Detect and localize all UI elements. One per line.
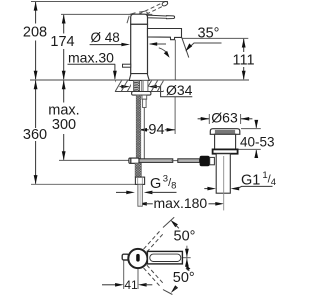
dim max30 leader: [68, 63, 116, 65]
svg-text:35°: 35°: [198, 26, 220, 42]
50deg lower leaders: [186, 265, 191, 271]
lever axis extension lower: [163, 290, 172, 295]
rod bar 2: [178, 159, 200, 163]
raised lever tip: [161, 1, 168, 7]
G3/8 thread tube: [138, 184, 142, 206]
svg-text:174: 174: [50, 34, 74, 50]
tailpipe: [216, 154, 230, 194]
flange: [210, 129, 240, 135]
lever axis extension upper: [163, 217, 174, 227]
pop-up rod body: [143, 99, 147, 107]
drain centerline: [223, 156, 225, 210]
ref line 174 top (cap top level): [61, 13, 152, 15]
knob: [200, 156, 210, 167]
lever rod: [148, 15, 175, 19]
leader with arrow: [187, 43, 221, 49]
lever pin: [136, 254, 140, 262]
lever mini-dim tick: [182, 257, 190, 259]
lever mini-dim arrows: [185, 249, 189, 257]
svg-text:Ø34: Ø34: [166, 82, 193, 98]
svg-text:300: 300: [52, 117, 76, 133]
dashed lever upper position: [144, 231, 164, 252]
svg-text:Ø63: Ø63: [211, 110, 238, 126]
swivel arrow: [150, 43, 166, 45]
dia63 tick left: [208, 114, 210, 124]
dim max180: [138, 202, 147, 206]
dim 111: [243, 39, 245, 79]
ref 40-53 bottom: [238, 148, 261, 150]
cartridge cap: [131, 14, 148, 24]
dim max300: [63, 81, 65, 160]
ref 41 right: [137, 268, 139, 289]
hatch right: [148, 81, 164, 92]
waste body: [215, 134, 236, 149]
mounting washer: [132, 92, 151, 96]
linkage hose clamp: [129, 158, 139, 163]
lever (top view): [147, 251, 182, 264]
ref 40-53 top: [241, 128, 261, 130]
ref 41 left: [123, 257, 125, 289]
pop-up rod tab: [123, 64, 131, 67]
svg-text:111: 111: [232, 53, 254, 69]
plug: [215, 130, 235, 134]
G3/8 label: [116, 191, 127, 193]
tilted cap dashes: [127, 11, 148, 23]
dim 360: [35, 81, 37, 184]
slab bottom line: [115, 91, 164, 93]
clamp block: [210, 157, 215, 164]
41 dim: [102, 284, 116, 286]
svg-text:50°: 50°: [174, 229, 196, 245]
shank right tube: [142, 80, 148, 91]
ref line counter top: [30, 79, 249, 81]
rod bar 1: [139, 159, 173, 163]
dim 40-53: [255, 121, 257, 128]
cap circle (top view): [128, 249, 147, 268]
50deg upper leader: [170, 220, 178, 227]
ref line 35deg / 111 top: [182, 37, 249, 39]
outlet axis extension upper: [174, 40, 176, 80]
ref line 208 top: [31, 1, 168, 3]
svg-text:94: 94: [148, 122, 164, 138]
threaded shank left: [134, 80, 140, 91]
svg-text:360: 360: [23, 127, 47, 143]
dashed raised lever: [139, 3, 164, 18]
dashed lever lower position: [144, 265, 164, 286]
pop-up rod thin: [143, 108, 145, 159]
lever mini-dim line: [186, 246, 188, 270]
outlet axis extension lower: [174, 97, 176, 134]
ref line 360 bottom (to hose nut): [31, 183, 135, 185]
spout stub (top view): [122, 254, 128, 260]
svg-text:208: 208: [23, 25, 47, 41]
base flange: [129, 74, 149, 81]
rod middle: [172, 160, 179, 162]
svg-text:max.180: max.180: [154, 195, 208, 211]
svg-text:40-53: 40-53: [240, 134, 275, 149]
dia63 dim: [198, 118, 209, 120]
dim 94: [138, 129, 148, 131]
svg-text:50°: 50°: [173, 270, 195, 286]
svg-text:Ø 48: Ø 48: [91, 30, 120, 45]
hatch left: [115, 81, 131, 92]
svg-text:max.30: max.30: [68, 49, 114, 65]
dim 174: [63, 15, 65, 79]
spout: [148, 29, 182, 40]
dia63 tick right: [240, 114, 242, 124]
pop-up rod top nut: [142, 95, 147, 99]
body column: [131, 24, 148, 73]
ref line max300 bottom (to linkage): [59, 159, 129, 161]
G1 1/4 label: [204, 188, 208, 190]
G3/8 hose nut: [135, 177, 144, 184]
svg-text:41: 41: [124, 278, 138, 292]
dim 208: [35, 2, 37, 79]
supply hose lower: [135, 163, 141, 177]
stream line: [182, 38, 189, 58]
locking collar: [213, 149, 238, 153]
supply hose upper: [136, 95, 140, 158]
dia34 callout: [121, 85, 130, 89]
